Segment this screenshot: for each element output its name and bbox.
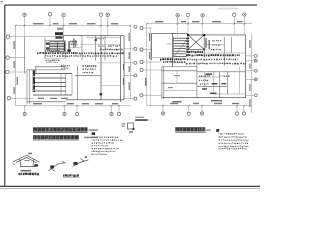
right-side leaders of left plan: [124, 49, 134, 99]
right bottom dim texts: [170, 103, 239, 104]
right bottom dim ticks: [162, 105, 245, 107]
right-side dim texts: [249, 40, 250, 107]
dark corner dot of square symbol: [133, 128, 135, 130]
right plan outer walls: [152, 33, 246, 97]
left title line 1: [33, 127, 88, 131]
rebar detail sketch A: [49, 162, 66, 171]
column detail square symbol: [128, 123, 134, 129]
left plan bottom dimension line: [16, 105, 131, 107]
sketch A dark knot: [50, 165, 54, 168]
bottom dim texts: [33, 103, 118, 104]
terrace left dark wall bar: [33, 70, 35, 92]
sheet border frame: [0, 5, 260, 186]
top dimension figure texts: [33, 23, 118, 24]
gray cluster center-lower: [61, 65, 96, 70]
caption leader line: [148, 119, 152, 121]
outer gray line below bottom border: [0, 187, 260, 189]
vertical dim text columns left-center: [73, 39, 76, 49]
right plan beam band row3: [186, 63, 246, 65]
axis leaders extended into right plan: [178, 24, 245, 37]
left plan right-side dimension line: [129, 26, 131, 99]
right plan beam band row1: [186, 54, 240, 56]
left vertical dimension line: [15, 26, 17, 106]
stair arrow diagonal: [175, 40, 188, 57]
WKL faint label above wall: [57, 28, 63, 30]
right plan top leaders: [178, 16, 245, 23]
right plan lower room tags: [199, 75, 210, 77]
wall below X-rect right edge: [203, 50, 205, 58]
right plan left leaders: [143, 28, 162, 95]
right plan bottom interior texts: [172, 100, 222, 102]
small caption text pair near right plan corner: [135, 117, 148, 121]
roof sketch peak tag: [28, 153, 32, 155]
WKL beam label bold upper: [55, 32, 63, 35]
vertical beam tags right of X-rect: [205, 38, 209, 49]
right plan secondary left vertical line: [149, 28, 151, 106]
left plan top axis leaders: [25, 16, 108, 26]
corridor lines above terrace: [27, 67, 66, 74]
right plan bottom dimension line: [147, 105, 253, 107]
right plan lower box text blobs: [202, 73, 226, 94]
interior lines left of stair: [152, 44, 174, 58]
right plan stair hatch: [174, 38, 187, 56]
gray tags top middle: [96, 38, 104, 40]
right-side leaders: [246, 56, 254, 95]
stair right dark dots column: [186, 38, 189, 56]
gray tags right upper: [98, 45, 123, 51]
left notes heading: [92, 132, 95, 135]
left plan inner walls: [25, 36, 106, 100]
beam annotation band row2: [45, 55, 117, 57]
dark label bar under X-brace: [187, 51, 204, 54]
faint tags inside lower-left box of right plan: [168, 75, 180, 88]
sketch caption underline: [63, 177, 80, 179]
terrace outer boundary lines: [27, 70, 30, 104]
left title line2 suffix text: [84, 137, 98, 139]
axis leaders extended into left plan: [25, 26, 108, 37]
stair left wall dark segments: [46, 42, 49, 44]
right plan beam band row2: [160, 58, 238, 63]
beam annotation band row1: [37, 52, 124, 54]
right plan room tags upper: [212, 40, 221, 42]
X-braced opening: [188, 35, 204, 50]
left vertical dim texts: [14, 41, 19, 94]
right plan left vertical dim line: [146, 24, 148, 106]
right plan inner walls: [162, 37, 246, 99]
faint gray text below border top-right: [218, 8, 238, 10]
sketch A tick: [63, 161, 65, 164]
roof sketch caption bold: [18, 173, 39, 176]
left plan outer walls: [63, 36, 124, 102]
sketch B small mark: [85, 156, 88, 158]
rebar detail sketch B: [73, 159, 89, 167]
left notes lines: [92, 136, 123, 155]
right plan right-side vertical dim line: [250, 34, 252, 114]
roof gable detail sketch: [13, 155, 40, 166]
bottom dim ticks: [24, 105, 120, 107]
left title line1 underline: [33, 132, 88, 134]
column dot on top wall: [95, 39, 97, 41]
left title line2 underline: [33, 139, 79, 141]
WKL beam label bold lower: [55, 36, 62, 38]
corner specks top-left: [1, 1, 4, 4]
left dim texts of right plan: [145, 33, 150, 86]
right plan bottom leaders: [163, 106, 244, 112]
right plan bottom axis bubbles: [161, 112, 245, 115]
right title underline: [175, 132, 206, 134]
left title scale note (1:100): [89, 129, 99, 131]
right plan lower box light partitions: [164, 45, 246, 95]
right top dim ticks: [146, 23, 245, 25]
left plan right-side axis bubbles: [134, 25, 137, 100]
left axis leaders: [9, 37, 63, 98]
terrace hatched slab: [33, 74, 72, 96]
right notes lines: [219, 133, 249, 150]
right title bar: [175, 127, 205, 131]
dim text under terrace: [38, 98, 68, 99]
left plan left axis bubbles: [6, 35, 11, 100]
right title scale note: [206, 130, 211, 131]
right plan left axis bubbles: [140, 26, 143, 96]
right plan top dimension line: [147, 23, 253, 25]
roof sketch left tick: [13, 164, 16, 166]
stair right dark bar: [64, 42, 66, 52]
left plan bottom axis bubbles: [23, 112, 121, 115]
tags around square symbol: [122, 123, 134, 132]
right notes heading: [216, 129, 219, 132]
sketch caption bold center: [63, 174, 79, 177]
column dots at X-rect corners: [187, 34, 205, 50]
top dimension ticks: [15, 25, 131, 27]
right plan right-side axis bubbles: [254, 55, 257, 97]
right top dim texts: [155, 21, 243, 22]
left plan top inner line: [86, 36, 121, 38]
small text cluster below stair: [45, 50, 60, 61]
sketch B dark knot: [73, 162, 77, 165]
roof sketch dark eave blob: [34, 164, 38, 166]
left plan top dimension line: [16, 25, 131, 27]
stair hatch left plan: [50, 42, 64, 52]
left title line 2: [33, 135, 79, 139]
left plan top axis bubbles: [23, 13, 110, 17]
roof sketch caption small: [21, 170, 32, 171]
right-side dim texts: [123, 33, 130, 90]
dark dot lower center: [100, 93, 102, 95]
left plan light interior lines: [27, 45, 121, 102]
right plan top axis bubbles: [176, 13, 246, 17]
left plan bottom axis leaders: [25, 106, 119, 113]
gray room tags cluster upper: [69, 41, 78, 43]
dark wall stub right of stair: [68, 42, 70, 53]
